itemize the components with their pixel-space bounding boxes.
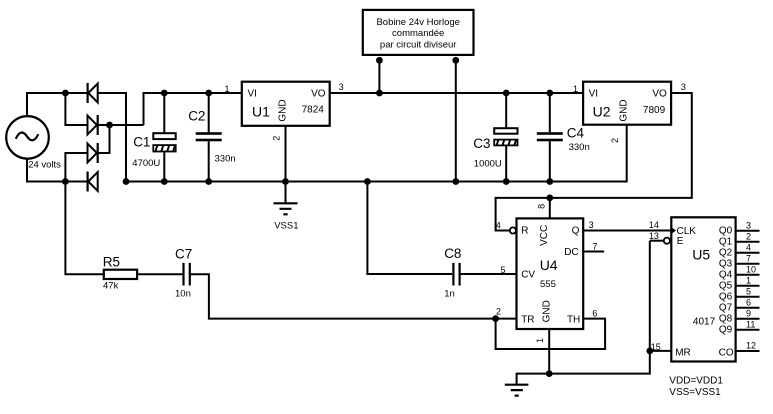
svg-text:8: 8	[536, 204, 546, 209]
svg-text:2: 2	[271, 136, 281, 141]
svg-text:TR: TR	[521, 315, 534, 326]
svg-text:555: 555	[540, 279, 556, 290]
svg-text:VI: VI	[589, 88, 598, 99]
svg-text:R: R	[521, 226, 528, 237]
svg-text:U2: U2	[593, 104, 611, 120]
svg-text:Q7: Q7	[719, 302, 733, 313]
svg-text:3: 3	[681, 82, 686, 92]
svg-text:7: 7	[592, 242, 597, 252]
svg-text:12: 12	[746, 341, 756, 351]
svg-text:4: 4	[746, 242, 751, 252]
svg-text:Q0: Q0	[719, 225, 733, 236]
svg-text:1: 1	[573, 84, 578, 94]
svg-text:Q6: Q6	[719, 291, 733, 302]
svg-text:C4: C4	[567, 125, 585, 140]
svg-text:1000U: 1000U	[474, 159, 502, 170]
svg-text:U1: U1	[252, 104, 270, 120]
svg-text:24 volts: 24 volts	[28, 160, 61, 171]
svg-text:R5: R5	[103, 254, 120, 269]
svg-text:commandée: commandée	[392, 28, 444, 39]
svg-text:1: 1	[535, 338, 545, 343]
svg-text:VDD=VDD1: VDD=VDD1	[669, 376, 723, 387]
svg-text:5: 5	[746, 286, 751, 296]
svg-text:Q5: Q5	[719, 280, 733, 291]
svg-text:Q9: Q9	[719, 324, 733, 335]
svg-text:Bobine 24v Horloge: Bobine 24v Horloge	[376, 17, 459, 28]
svg-text:7: 7	[746, 253, 751, 263]
svg-text:GND: GND	[619, 99, 630, 121]
svg-text:4017: 4017	[693, 316, 716, 327]
svg-text:7824: 7824	[302, 105, 325, 116]
svg-text:VI: VI	[248, 88, 257, 99]
svg-text:Q1: Q1	[719, 236, 733, 247]
svg-text:C2: C2	[188, 109, 205, 124]
svg-text:15: 15	[651, 342, 661, 352]
svg-text:6: 6	[746, 297, 751, 307]
svg-text:C1: C1	[133, 135, 150, 150]
svg-text:47k: 47k	[103, 280, 119, 291]
svg-text:CO: CO	[719, 347, 734, 358]
svg-text:C8: C8	[444, 246, 461, 261]
svg-text:2: 2	[746, 231, 751, 241]
svg-text:Q2: Q2	[719, 247, 733, 258]
svg-text:3: 3	[746, 220, 751, 230]
svg-text:7809: 7809	[643, 105, 666, 116]
svg-text:3: 3	[589, 220, 594, 230]
svg-text:CLK: CLK	[677, 226, 697, 237]
svg-text:VCC: VCC	[539, 225, 550, 246]
svg-text:10: 10	[746, 264, 756, 274]
svg-text:11: 11	[746, 319, 755, 329]
svg-text:Q: Q	[572, 226, 580, 237]
svg-text:VSS1: VSS1	[274, 220, 298, 231]
svg-text:4: 4	[496, 220, 501, 230]
svg-text:par circuit diviseur: par circuit diviseur	[380, 39, 457, 50]
svg-text:330n: 330n	[215, 154, 236, 165]
svg-text:C3: C3	[473, 136, 490, 151]
svg-text:14: 14	[649, 220, 659, 230]
svg-text:C7: C7	[175, 246, 192, 261]
svg-text:U4: U4	[540, 257, 558, 273]
svg-text:MR: MR	[675, 347, 691, 358]
svg-text:6: 6	[592, 308, 597, 318]
svg-text:CV: CV	[521, 269, 535, 280]
svg-text:2: 2	[610, 138, 620, 143]
svg-text:Q8: Q8	[719, 313, 733, 324]
svg-text:3: 3	[339, 82, 344, 92]
svg-text:10n: 10n	[175, 288, 191, 299]
svg-text:9: 9	[746, 308, 751, 318]
svg-text:VO: VO	[652, 88, 667, 99]
svg-text:1n: 1n	[444, 289, 455, 300]
svg-text:1: 1	[746, 275, 751, 285]
svg-text:E: E	[677, 236, 684, 247]
svg-text:13: 13	[649, 231, 659, 241]
svg-text:VO: VO	[311, 88, 326, 99]
svg-text:1: 1	[224, 84, 229, 94]
svg-text:GND: GND	[542, 300, 553, 322]
svg-text:Q4: Q4	[719, 269, 733, 280]
svg-text:4700U: 4700U	[132, 158, 160, 169]
svg-text:5: 5	[500, 265, 505, 275]
svg-text:330n: 330n	[569, 142, 590, 153]
svg-text:GND: GND	[278, 99, 289, 121]
svg-text:DC: DC	[564, 247, 578, 258]
svg-text:2: 2	[496, 307, 501, 317]
svg-text:TH: TH	[567, 315, 580, 326]
svg-text:U5: U5	[692, 247, 710, 263]
svg-text:Q3: Q3	[719, 258, 733, 269]
svg-text:VSS=VSS1: VSS=VSS1	[669, 387, 721, 398]
